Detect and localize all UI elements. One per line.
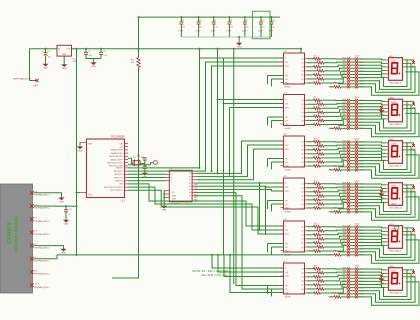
capacitor	[269, 22, 273, 24]
svg-text:C2: C2	[88, 51, 90, 53]
junction	[270, 16, 272, 18]
wire	[341, 254, 347, 256]
pad L5	[347, 195, 350, 198]
svg-text:KEYPAD(2)SV1.1: KEYPAD(2)SV1.1	[35, 286, 50, 289]
svg-text:Q5: Q5	[301, 243, 303, 245]
wire serpentine	[358, 101, 407, 128]
wire	[271, 247, 273, 255]
pin VDD stub	[80, 192, 87, 194]
wire pad to display	[358, 200, 386, 203]
svg-text:Q4: Q4	[301, 154, 303, 156]
wire	[213, 17, 215, 22]
wire	[308, 284, 314, 286]
pad L4	[347, 235, 350, 238]
resistor	[314, 115, 321, 118]
svg-text:VCBP: VCBP	[211, 31, 217, 33]
wire	[350, 86, 355, 88]
pad PAD09	[355, 165, 358, 168]
pin IC7 Q1	[305, 268, 308, 270]
wire	[321, 203, 348, 208]
pad PAD05	[355, 70, 358, 73]
digit 8 segments	[392, 63, 401, 74]
wire	[350, 163, 355, 165]
pad PAD05	[355, 153, 358, 156]
pin LED2 right 2	[403, 104, 406, 106]
wire	[350, 277, 355, 279]
wire	[330, 211, 335, 213]
pin IC6 Q3	[305, 234, 308, 236]
junction	[213, 16, 215, 18]
pin IC3 Q2	[305, 103, 308, 105]
resistor	[314, 99, 321, 102]
resistor	[314, 284, 321, 287]
wire	[180, 24, 182, 37]
pin IC3 input 1	[281, 99, 284, 101]
wire	[324, 285, 347, 289]
pin G3 stub	[166, 196, 169, 198]
pin LED5 seg B	[386, 230, 389, 232]
svg-text:KEYPAD(2)SV1.1: KEYPAD(2)SV1.1	[35, 194, 50, 197]
diode D3	[412, 144, 415, 147]
ground	[91, 61, 95, 65]
pin IC5 Q4	[305, 195, 308, 197]
diode D4	[412, 186, 415, 189]
svg-text:GND: GND	[78, 150, 83, 152]
pin IC2 Q2	[305, 62, 308, 64]
svg-text:Q2: Q2	[301, 104, 303, 106]
pin LED2 seg E	[386, 114, 389, 116]
wire	[180, 17, 182, 22]
pin IC4 Q5	[305, 157, 308, 159]
pad PAD06	[355, 198, 358, 201]
svg-text:RA1: RA1	[194, 186, 198, 189]
wire	[350, 205, 355, 207]
svg-text:RA6/OSC2/CLKOUT: RA6/OSC2/CLKOUT	[107, 162, 123, 165]
pin RB7 stub	[125, 189, 129, 191]
pad PAD08	[355, 247, 358, 250]
resistor	[137, 58, 140, 68]
wire	[338, 208, 347, 210]
resistor	[317, 153, 324, 156]
pin LED4 seg F	[386, 201, 389, 203]
svg-text:RA1: RA1	[120, 146, 123, 149]
svg-text:HWRSTAB(L)SV1.1: HWRSTAB(L)SV1.1	[13, 77, 32, 80]
svg-text:KEYPAD(2)SV1.1: KEYPAD(2)SV1.1	[35, 260, 50, 263]
svg-text:C10: C10	[261, 20, 264, 22]
wire	[308, 107, 314, 109]
svg-text:C5: C5	[182, 20, 184, 22]
wire pad to display	[358, 107, 386, 109]
wire pad to display	[358, 278, 386, 280]
resistor	[314, 199, 321, 202]
svg-text:Q6: Q6	[301, 120, 303, 122]
pad L1	[347, 58, 350, 61]
pin IC5 input 2	[281, 186, 284, 188]
wire	[321, 107, 348, 109]
pad L6	[347, 115, 350, 118]
junction	[217, 254, 219, 256]
pin IC6 Q4	[305, 238, 308, 240]
pad L2	[347, 229, 350, 232]
junction	[229, 254, 231, 256]
wire	[324, 278, 347, 281]
wire	[308, 246, 318, 248]
wire	[321, 246, 348, 251]
wire	[321, 148, 348, 150]
capacitor	[179, 22, 183, 24]
wire serpentine	[358, 240, 419, 263]
pad L7	[347, 286, 350, 289]
wire	[338, 83, 347, 85]
pad L10	[347, 86, 350, 89]
junction	[223, 103, 225, 105]
pin LED5 right 1	[403, 227, 406, 229]
pad PAD03	[355, 105, 358, 108]
wire	[271, 121, 273, 129]
wire pad to display	[358, 233, 386, 235]
svg-text:Y3: Y3	[189, 183, 191, 185]
svg-text:R1: R1	[314, 56, 316, 58]
ground	[379, 192, 383, 196]
wire pad to display	[358, 281, 386, 284]
wire pad to display	[358, 148, 386, 150]
pin IC7 Q2	[305, 272, 308, 274]
wire serpentine	[358, 113, 419, 136]
svg-text:KEYPAD(2)SV1.1: KEYPAD(2)SV1.1	[35, 233, 50, 236]
pin LED5 right 2	[403, 230, 406, 232]
pad L1	[347, 99, 350, 102]
wire pad to display	[358, 75, 386, 78]
wire serpentine	[358, 270, 407, 297]
wire RB3 B	[128, 177, 166, 179]
wire	[341, 296, 347, 298]
wire	[350, 160, 355, 162]
wire	[308, 288, 318, 290]
wire ground return bus	[181, 36, 271, 38]
capacitor	[99, 52, 103, 54]
svg-text:VCBP: VCBP	[178, 31, 184, 33]
pin LED6 seg E	[386, 283, 389, 285]
svg-text:QS2: QS2	[285, 208, 288, 210]
wire	[308, 145, 318, 147]
wire common	[406, 228, 414, 230]
pad PAD10	[355, 169, 358, 172]
wire	[324, 243, 347, 247]
pin LED3 right 3	[403, 149, 406, 151]
pad PAD06	[355, 156, 358, 159]
wire	[270, 24, 272, 37]
svg-text:R47: R47	[329, 255, 332, 257]
capacitor	[143, 166, 147, 168]
wire	[338, 166, 347, 168]
svg-text:Q3: Q3	[301, 67, 303, 69]
pin LED4 seg D	[386, 194, 389, 196]
wire	[324, 103, 347, 106]
resistor	[334, 296, 341, 299]
pin B stub	[166, 177, 169, 179]
shift register IC7 4094N	[284, 263, 305, 294]
wire	[308, 191, 314, 193]
pad PAD09	[355, 250, 358, 253]
pin LED1 right 2	[403, 62, 406, 64]
pin RA4 stub	[125, 155, 129, 157]
wire	[308, 115, 314, 117]
wire	[321, 119, 348, 124]
wire	[350, 103, 355, 105]
svg-text:R15: R15	[314, 139, 317, 141]
svg-text:Q6: Q6	[301, 247, 303, 249]
svg-text:Res: R43 = 270 Ohm: Res: R43 = 270 Ohm	[202, 273, 229, 277]
svg-text:LED1: LED1	[389, 56, 394, 58]
wire	[321, 141, 348, 143]
resistor	[317, 119, 324, 122]
wire	[272, 161, 284, 163]
resistor	[317, 229, 324, 232]
wire	[321, 239, 348, 243]
svg-text:Q4: Q4	[301, 281, 303, 283]
junction	[233, 48, 235, 50]
wire	[350, 238, 355, 240]
wire	[260, 17, 262, 22]
wire	[350, 153, 355, 155]
junction	[198, 16, 200, 18]
wire	[308, 141, 314, 143]
resistor	[314, 82, 321, 85]
wire	[350, 80, 355, 82]
wire	[308, 195, 318, 197]
wire	[308, 82, 314, 84]
wire pad to display	[358, 104, 386, 105]
pad PAD02	[355, 61, 358, 64]
diode D6	[412, 271, 415, 274]
wire	[271, 289, 273, 297]
pin LED1 seg E	[386, 73, 389, 75]
svg-text:Q3: Q3	[301, 192, 303, 194]
pin Y1 stub	[192, 176, 196, 178]
pin IC4 Q2	[305, 145, 308, 147]
pad PAD08	[355, 162, 358, 165]
wire	[324, 186, 347, 189]
wire	[268, 116, 284, 118]
wire	[308, 203, 318, 205]
pad PAD07	[355, 244, 358, 247]
pin LED2 right 1	[403, 100, 406, 102]
capacitor	[227, 22, 231, 24]
voltage regulator IC4 7805	[57, 45, 72, 56]
wire	[321, 58, 348, 60]
wire	[267, 159, 269, 168]
wire pad to display	[358, 236, 386, 238]
pin IC4 input 2	[281, 144, 284, 146]
svg-text:Y6: Y6	[189, 192, 191, 194]
pin G1 stub	[166, 190, 169, 192]
pin LED5 seg E	[386, 241, 389, 243]
shift register IC2 4094N	[284, 53, 305, 84]
pad PAD03	[355, 189, 358, 192]
pin RA7 stub	[125, 165, 129, 167]
pin LED1 seg D	[386, 69, 389, 71]
svg-text:C7: C7	[214, 20, 216, 22]
junction	[65, 205, 67, 207]
svg-text:QS2: QS2	[285, 251, 288, 253]
pad L8	[347, 162, 350, 165]
wire	[350, 268, 355, 270]
svg-text:Y5: Y5	[189, 189, 191, 191]
wire	[321, 183, 348, 185]
digit 8 segments	[392, 188, 401, 199]
wire	[138, 17, 140, 57]
wire	[272, 288, 284, 290]
pad L10	[347, 296, 350, 299]
wire to row6 CLK	[218, 255, 284, 272]
pin IC6 ctl 1	[281, 243, 284, 245]
wire	[308, 234, 314, 236]
wire	[321, 113, 348, 117]
pin IC4 Q7	[305, 165, 308, 167]
pad PAD04	[355, 108, 358, 111]
wire serpentine	[358, 273, 411, 299]
svg-text:QS2: QS2	[285, 83, 288, 85]
pin LED1 seg C	[386, 66, 389, 68]
pin IC2 Q5	[305, 74, 308, 76]
resistor	[314, 207, 321, 210]
pin RA1 stub	[125, 146, 129, 148]
resistor	[317, 195, 324, 198]
svg-text:0.1u: 0.1u	[199, 26, 203, 28]
digit 8 segments	[392, 231, 401, 242]
wire	[308, 62, 318, 64]
wire common	[406, 60, 414, 62]
resistor	[317, 78, 324, 81]
pin IC2 ctl 2	[281, 78, 284, 80]
junction	[76, 48, 78, 50]
junction	[138, 155, 140, 157]
wire	[350, 70, 355, 72]
pin LED6 seg A	[386, 269, 389, 271]
svg-text:RB2/TX/CK: RB2/TX/CK	[114, 174, 124, 176]
pad L9	[347, 250, 350, 253]
svg-text:RA2/AN2/VREF: RA2/AN2/VREF	[111, 149, 123, 152]
wire	[228, 17, 230, 22]
wire	[350, 127, 355, 129]
pin IC3 Q1	[305, 99, 308, 101]
wire	[350, 74, 355, 76]
pin LED2 seg B	[386, 104, 389, 106]
pad L5	[347, 280, 350, 283]
wire serpentine	[358, 150, 415, 175]
svg-text:Y7: Y7	[189, 196, 191, 198]
ground	[43, 63, 47, 67]
wire	[321, 196, 348, 200]
svg-text:LED3: LED3	[389, 139, 394, 141]
wire Y3 row4	[197, 182, 284, 184]
wire	[350, 211, 355, 213]
pin SV1-6	[30, 257, 34, 261]
wire	[308, 161, 318, 163]
wire	[350, 121, 355, 123]
wire	[140, 160, 145, 164]
diode D1	[412, 61, 415, 64]
capacitor	[212, 22, 216, 24]
wire	[268, 243, 284, 245]
wire	[338, 251, 347, 253]
wire	[324, 158, 347, 162]
shift register IC4 4094N	[284, 136, 305, 167]
resistor	[334, 254, 341, 257]
svg-text:R8: R8	[314, 97, 316, 99]
pin LED1 right 1	[403, 59, 406, 61]
pad PAD02	[355, 229, 358, 232]
pad PAD01	[355, 268, 358, 271]
wire	[321, 99, 348, 101]
svg-text:R23: R23	[318, 185, 321, 187]
pad PAD09	[355, 207, 358, 210]
wire	[34, 193, 62, 196]
wire	[272, 120, 284, 122]
svg-text:0.1u: 0.1u	[214, 26, 218, 28]
wire serpentine	[358, 63, 411, 89]
pin SV1-3	[30, 217, 34, 221]
pin IC6 input 2	[281, 229, 284, 231]
resistor	[314, 267, 321, 270]
svg-text:LED2: LED2	[389, 97, 394, 99]
wire	[321, 78, 348, 83]
pad L4	[347, 192, 350, 195]
wire	[350, 112, 355, 114]
wire RB0	[128, 167, 200, 169]
shift register IC3 4094N	[284, 95, 305, 126]
wire	[271, 79, 273, 87]
pin LED1 seg F	[386, 76, 389, 78]
svg-text:LED6: LED6	[389, 266, 394, 268]
pad L10	[347, 169, 350, 172]
wire	[324, 200, 347, 204]
pin LED2 seg D	[386, 111, 389, 113]
wire pad to display	[358, 230, 386, 231]
pin IC2 ctl 1	[281, 75, 284, 77]
pad PAD02	[355, 271, 358, 274]
pin RA3 stub	[125, 152, 129, 154]
pin IC5 Q7	[305, 207, 308, 209]
svg-text:GND: GND	[62, 54, 67, 56]
svg-text:C3: C3	[103, 51, 105, 53]
pad L2	[347, 61, 350, 64]
svg-text:KEYPAD(2)SV1.1: KEYPAD(2)SV1.1	[35, 246, 50, 249]
junction	[76, 254, 78, 256]
svg-text:Y2: Y2	[189, 180, 191, 182]
wire serpentine	[358, 146, 411, 172]
svg-text:RA4/T0CKI/CMP2: RA4/T0CKI/CMP2	[109, 155, 123, 158]
wire	[244, 24, 246, 37]
wire common	[406, 270, 414, 272]
wire serpentine	[358, 67, 415, 92]
resistor	[317, 144, 324, 147]
wire	[260, 24, 262, 37]
svg-text:Q2: Q2	[301, 146, 303, 148]
pin IC5 Q1	[305, 183, 308, 185]
wire	[164, 196, 166, 198]
wire common	[406, 101, 414, 103]
svg-text:RB4/PGM: RB4/PGM	[115, 181, 123, 183]
pin LED2 right 3	[403, 107, 406, 109]
resistor	[317, 161, 324, 164]
svg-text:C11: C11	[272, 20, 275, 22]
svg-text:GND: GND	[379, 114, 384, 116]
wire serpentine	[358, 155, 419, 178]
junction	[259, 182, 261, 184]
wire	[341, 211, 347, 213]
wire serpentine	[358, 192, 415, 217]
